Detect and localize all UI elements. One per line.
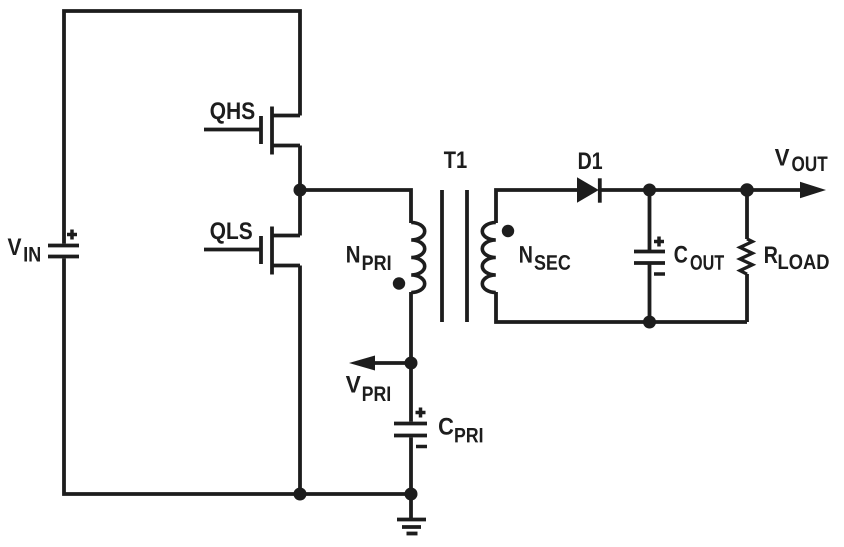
arrowhead VOUT xyxy=(800,182,826,199)
wire NPRI bottom to VPRI node to CPRI top xyxy=(409,292,413,422)
wire VOUT node to RLOAD top xyxy=(745,190,749,239)
wire NSEC bottom to RLOAD bottom xyxy=(496,292,747,322)
label VIN xyxy=(8,238,22,255)
plus sign CPRI xyxy=(416,408,426,418)
wire RLOAD bottom xyxy=(745,274,749,322)
capacitor VIN plates xyxy=(48,246,79,257)
wire QLS source to bottom rail xyxy=(298,266,302,495)
wire VIN+ top rail to QHS drain xyxy=(64,11,300,244)
label COUT xyxy=(675,246,688,263)
diode D1 triangle xyxy=(577,177,599,202)
label VPRI xyxy=(346,376,361,393)
wire CPRI bottom to ground node xyxy=(409,437,413,494)
node VOUT RLOAD dot xyxy=(740,183,754,197)
minus sign COUT xyxy=(654,272,665,276)
label NSEC xyxy=(520,246,532,263)
wire COUT bottom plate to bottom wire xyxy=(648,263,652,322)
transformer T1 secondary winding NSEC xyxy=(482,223,496,293)
label VOUT xyxy=(775,149,790,166)
capacitor COUT plates xyxy=(634,252,665,264)
ground symbol xyxy=(397,494,426,534)
node QLS source bottom rail dot xyxy=(294,488,307,501)
label QHS xyxy=(211,102,255,123)
label QLS xyxy=(211,222,252,243)
arrow VPRI line xyxy=(360,361,411,365)
transformer T1 core lines xyxy=(442,190,467,322)
wire VOUT node to COUT top plate xyxy=(648,190,652,252)
label CPRI xyxy=(439,418,453,435)
node ground rail dot xyxy=(405,488,418,501)
transistor QLS xyxy=(204,227,300,275)
wire NSEC top to D1 anode xyxy=(496,190,577,223)
node D1 cathode COUT dot xyxy=(643,184,656,197)
diode D1 cathode bar xyxy=(598,178,602,202)
wire switch node to NPRI top xyxy=(300,190,411,223)
transformer T1 primary winding NPRI xyxy=(411,223,425,293)
node VPRI dot xyxy=(405,357,418,370)
plus sign VIN xyxy=(67,230,77,240)
transistor QHS xyxy=(204,107,300,155)
label T1 xyxy=(444,151,467,168)
plus sign COUT xyxy=(654,237,664,247)
node switch node dot xyxy=(294,184,307,197)
polarity dot NSEC xyxy=(502,225,514,237)
polarity dot NPRI xyxy=(393,277,405,289)
capacitor CPRI plates xyxy=(394,424,427,436)
node COUT bottom dot xyxy=(643,316,656,329)
resistor RLOAD zigzag xyxy=(740,239,752,274)
label RLOAD xyxy=(765,246,777,263)
label D1 xyxy=(579,152,602,169)
wire D1 cathode to VOUT arrow xyxy=(600,188,801,192)
arrowhead VPRI xyxy=(349,356,375,371)
label NPRI xyxy=(347,246,359,263)
wire VIN- down left rail and bottom rail to ground node xyxy=(64,258,411,494)
wire QHS source to switch node xyxy=(298,146,302,191)
wire switch node to QLS drain xyxy=(298,190,302,236)
minus sign CPRI xyxy=(416,445,427,449)
